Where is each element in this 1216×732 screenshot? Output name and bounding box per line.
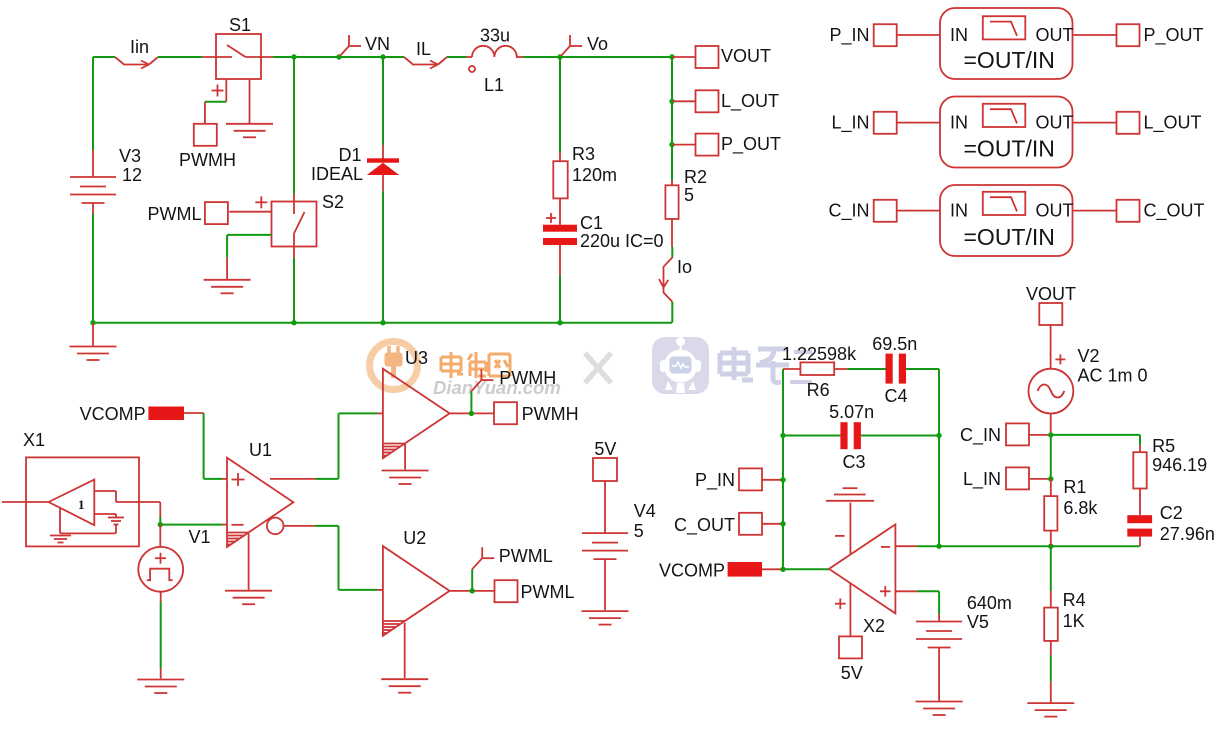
svg-text:PWML: PWML [499, 546, 553, 566]
resistor R3 [553, 161, 567, 198]
label C4 [885, 386, 908, 406]
label S2 [322, 192, 344, 212]
wire to P_OUT port [672, 144, 696, 146]
X2 negative supply pin [835, 503, 850, 554]
ground main rail [70, 347, 117, 361]
svg-text:P_OUT: P_OUT [1144, 25, 1204, 46]
resistor R6 wires [783, 368, 886, 370]
resistor R5 [1133, 452, 1146, 488]
svg-text:5V: 5V [841, 663, 863, 683]
svg-text:C2: C2 [1160, 503, 1183, 523]
value R1 6.8k [1063, 498, 1098, 518]
svg-text:VOUT: VOUT [721, 46, 771, 66]
transfer-function block L_OUT [940, 97, 1073, 168]
svg-text:5.07n: 5.07n [829, 402, 874, 422]
label 5V (X2) [841, 663, 863, 683]
wire VN junction down to D1 [382, 57, 384, 159]
resistor R4 [1044, 608, 1058, 641]
svg-text:VCOMP: VCOMP [80, 404, 146, 424]
wire to L_OUT port [669, 99, 695, 104]
port L_IN [874, 112, 897, 134]
wire rail to main ground [92, 323, 94, 346]
svg-text:R2: R2 [684, 167, 707, 187]
value L1 33u [480, 26, 510, 46]
node V1 junction [158, 522, 163, 527]
resistor R2 [665, 185, 678, 219]
wire V2 to C_IN row [1050, 414, 1052, 435]
svg-text:V3: V3 [119, 146, 141, 166]
X1 output wire [139, 502, 160, 525]
svg-text:X1: X1 [23, 430, 45, 450]
ground V1 [137, 680, 184, 694]
svg-text:PWMH: PWMH [522, 404, 579, 424]
X2 plus input wire [895, 591, 939, 614]
svg-text:U3: U3 [405, 348, 428, 368]
svg-text:PWML: PWML [521, 582, 575, 602]
label C_OUT (left) [674, 515, 735, 536]
wire C4 to right vertical [906, 368, 939, 370]
wire V4 to ground [604, 559, 606, 610]
U3 output wire [450, 411, 494, 416]
wire C_OUT to vertical [762, 521, 786, 526]
svg-text:U2: U2 [403, 528, 426, 548]
port PWML (right) [495, 580, 518, 602]
svg-text:C_IN: C_IN [960, 425, 1001, 446]
svg-text:P_IN: P_IN [829, 25, 869, 46]
svg-text:S1: S1 [229, 15, 251, 35]
comparator U1 [227, 458, 293, 547]
port C_IN (right) [1006, 423, 1029, 445]
transfer-function block C_OUT [940, 185, 1073, 256]
wire V1 junction to source [159, 525, 161, 548]
battery V4 [582, 533, 628, 559]
wire V1 to ground [160, 592, 162, 679]
wire L1 to Vo junction [523, 54, 563, 59]
U1 hatch [228, 533, 249, 545]
wire U1 bubble output to U2 [284, 526, 383, 590]
wire C1 to bottom rail [557, 245, 562, 325]
svg-text:V4: V4 [634, 501, 656, 521]
bode icon [983, 192, 1026, 215]
watermark dianyuan logo [370, 342, 418, 390]
wire Iin to S1 [158, 56, 202, 58]
svg-text:Vo: Vo [587, 34, 608, 54]
resistor R1 wires [1050, 479, 1052, 546]
label C2 [1160, 503, 1183, 523]
subcircuit X1 box [26, 457, 139, 546]
label U3 [405, 348, 428, 368]
svg-text:=OUT/IN: =OUT/IN [964, 224, 1055, 250]
wire Vo to VOUT corner [560, 54, 675, 59]
label VN [365, 34, 390, 54]
value R4 1K [1063, 611, 1085, 631]
svg-text:220u IC=0: 220u IC=0 [580, 231, 664, 251]
svg-text:VN: VN [365, 34, 390, 54]
svg-text:L_OUT: L_OUT [721, 91, 779, 112]
wire P_IN to vertical [762, 477, 786, 482]
label R4 [1063, 590, 1086, 610]
wire VOUT to V2 [1051, 325, 1066, 369]
svg-text:C1: C1 [580, 213, 603, 233]
feedback right vertical wire [938, 369, 940, 546]
wire IL to L1 [447, 56, 472, 58]
svg-text:5: 5 [634, 521, 644, 541]
block equation =OUT/IN [964, 47, 1055, 73]
wire C3 left [780, 433, 840, 438]
label R5 [1152, 436, 1175, 456]
node Vo flag [560, 35, 582, 57]
wire Vo down to R3 [559, 57, 561, 161]
watermark x mark [585, 353, 611, 383]
U1 plus input mark [232, 473, 245, 486]
port L_IN (right) [1006, 467, 1029, 489]
wire C_IN to junction [1030, 432, 1054, 437]
wire VN to D1 junction [339, 54, 386, 59]
label V3 [119, 146, 141, 166]
svg-text:L_IN: L_IN [963, 469, 1001, 490]
X1 feedback wires [94, 491, 139, 518]
svg-text:1K: 1K [1063, 611, 1085, 631]
X2 positive supply pin [835, 583, 850, 636]
port L_OUT [1117, 112, 1140, 134]
ground V5 [916, 702, 963, 716]
wire Io to bottom rail [671, 302, 673, 323]
S2 minus control wire [227, 235, 271, 280]
label S1 [229, 15, 251, 35]
svg-text:=OUT/IN: =OUT/IN [964, 47, 1055, 73]
wire C_IN to block [897, 210, 941, 212]
label PWML port [521, 582, 575, 602]
svg-text:V2: V2 [1078, 346, 1100, 366]
label PWMH port [522, 404, 579, 424]
label P_IN [829, 25, 869, 46]
diode D1 IDEAL [367, 158, 399, 191]
svg-text:L_OUT: L_OUT [1144, 113, 1202, 134]
svg-text:V5: V5 [967, 612, 989, 632]
wire VCOMP to U1 plus [184, 413, 227, 479]
svg-text:27.96n: 27.96n [1160, 524, 1215, 544]
current probe IL [404, 57, 447, 69]
svg-text:D1: D1 [338, 145, 361, 165]
label PWML flag [499, 546, 553, 566]
port VOUT (right) [1039, 303, 1062, 325]
label U2 [403, 528, 426, 548]
pin label OUT [1036, 113, 1074, 133]
label C_IN [828, 201, 869, 222]
label L_OUT [1144, 113, 1202, 134]
buffer U2 [383, 546, 450, 636]
pin label IN [950, 201, 968, 221]
port C_OUT [1117, 200, 1140, 222]
U1 minus input mark [232, 524, 244, 526]
capacitor C3 [840, 422, 861, 449]
bottom rail wire [90, 320, 672, 325]
label Iin [130, 37, 149, 57]
compensator output rail [939, 544, 1140, 549]
svg-text:C_OUT: C_OUT [674, 515, 735, 536]
label Io [677, 257, 692, 277]
svg-text:IN: IN [950, 25, 968, 45]
inverted ground X2 [826, 488, 874, 501]
value C1 220u IC=0 [580, 231, 664, 251]
label P_IN (left) [695, 470, 735, 491]
capacitor C4 [886, 354, 907, 384]
port P_IN [874, 24, 897, 46]
label V4 [634, 501, 656, 521]
wire V5 to ground [938, 648, 940, 701]
svg-text:R5: R5 [1152, 436, 1175, 456]
wire C3 right [861, 433, 942, 438]
value R3 120m [572, 165, 617, 185]
port 5V (X2) [839, 636, 862, 658]
svg-text:C_IN: C_IN [828, 201, 869, 222]
svg-text:Io: Io [677, 257, 692, 277]
svg-text:IN: IN [950, 201, 968, 221]
svg-text:640m: 640m [967, 593, 1012, 613]
label PWMH flag [499, 368, 556, 388]
node PWML flag [472, 547, 494, 591]
pulse source V1 [138, 547, 183, 592]
feedback left vertical wire [782, 369, 784, 569]
node VCOMP tag (right) [728, 562, 762, 577]
pin label IN [950, 25, 968, 45]
svg-text:1.22598k: 1.22598k [782, 344, 857, 364]
pin label IN [950, 113, 968, 133]
wire down to P_OUT [669, 101, 674, 147]
value V4 5 [634, 521, 644, 541]
wire S2 to bottom rail [291, 258, 296, 326]
block equation =OUT/IN [964, 224, 1055, 250]
svg-text:R1: R1 [1063, 477, 1086, 497]
svg-text:OUT: OUT [1036, 25, 1074, 45]
label L1 [484, 75, 504, 95]
port 5V (V4) [593, 458, 617, 481]
resistor R1 [1044, 496, 1057, 530]
current source Io [659, 257, 673, 302]
wire V1 to U1 minus input [160, 524, 227, 526]
port PWMH (top) [194, 124, 217, 146]
node VCOMP tag (left) [148, 407, 184, 421]
label VCOMP (right) [659, 561, 725, 581]
capacitor C2 [1127, 515, 1152, 536]
transfer-function block P_OUT [940, 8, 1073, 79]
svg-text:5: 5 [684, 185, 694, 205]
svg-text:R4: R4 [1063, 590, 1086, 610]
buffer U3 [383, 369, 450, 459]
battery V5 [916, 622, 962, 648]
wire top rail left segment [93, 56, 115, 58]
label V1 [189, 527, 211, 547]
label P_OUT [721, 134, 781, 155]
X1 input wire [2, 501, 49, 503]
value V3 12 [122, 165, 142, 185]
wire P_OUT junction to R2 [671, 145, 673, 186]
U2 ground pin [404, 623, 406, 678]
svg-text:1: 1 [78, 497, 85, 512]
label R3 [572, 144, 595, 164]
ground V4 [582, 611, 629, 625]
wire block to C_OUT [1073, 210, 1118, 212]
port C_OUT (left) [739, 513, 762, 535]
svg-text:5V: 5V [594, 439, 616, 459]
label Vo [587, 34, 608, 54]
svg-text:R3: R3 [572, 144, 595, 164]
wire R4 to ground [1050, 641, 1052, 703]
svg-text:C4: C4 [885, 386, 908, 406]
bode icon [983, 16, 1026, 39]
resistor R6 [800, 362, 834, 375]
bode icon [983, 104, 1026, 127]
svg-text:X2: X2 [863, 616, 885, 636]
label IL [416, 39, 431, 59]
svg-text:AC 1m 0: AC 1m 0 [1078, 366, 1148, 386]
voltage source V3 wire [92, 57, 94, 177]
port P_OUT [1117, 24, 1140, 46]
port PWMH (right) [494, 402, 517, 424]
watermark text dianyuan [441, 352, 510, 378]
wire to V5 [938, 614, 940, 622]
X2 minus input mark [881, 546, 890, 548]
label X2 [863, 616, 885, 636]
pin label OUT [1036, 25, 1074, 45]
svg-text:S2: S2 [322, 192, 344, 212]
svg-text:U1: U1 [249, 440, 272, 460]
U3 hatch [384, 444, 405, 456]
label P_OUT [1144, 25, 1204, 46]
label VOUT (right) [1026, 284, 1076, 304]
switch S1 [202, 34, 273, 79]
op-amp X2 [829, 524, 895, 613]
port VOUT (top) [696, 46, 719, 68]
block equation =OUT/IN [964, 136, 1055, 162]
svg-text:L_IN: L_IN [831, 113, 869, 134]
wire P_IN to block [897, 34, 941, 36]
svg-text:V1: V1 [189, 527, 211, 547]
label C1 [580, 213, 603, 233]
value R5 946.19 [1152, 455, 1207, 475]
label PWMH (top) [179, 150, 236, 170]
wire C_IN row to R5 [1051, 435, 1140, 445]
wire C2 to output rail [1139, 537, 1141, 547]
svg-text:6.8k: 6.8k [1063, 498, 1098, 518]
label C_IN (right) [960, 425, 1001, 446]
svg-text:120m: 120m [572, 165, 617, 185]
wire D1 junction to IL [383, 56, 404, 58]
watermark robot logo [652, 337, 709, 394]
svg-text:R6: R6 [807, 380, 830, 400]
U1 ground pin [248, 533, 250, 590]
label C3 [843, 452, 866, 472]
wire L_IN to block [897, 122, 941, 124]
svg-text:PWMH: PWMH [499, 368, 556, 388]
svg-text:Iin: Iin [130, 37, 149, 57]
label VCOMP (left) [80, 404, 146, 424]
svg-text:IL: IL [416, 39, 431, 59]
S1 ground pin [249, 79, 251, 124]
port C_IN [874, 200, 897, 222]
label C_OUT [1144, 201, 1205, 222]
X2 minus input wire [895, 544, 941, 549]
value C2 27.96n [1160, 524, 1215, 544]
svg-text:=OUT/IN: =OUT/IN [964, 136, 1055, 162]
svg-text:69.5n: 69.5n [872, 334, 917, 354]
svg-text:P_IN: P_IN [695, 470, 735, 491]
wire S1 control to PWMH [205, 102, 226, 124]
label L_OUT [721, 91, 779, 112]
port P_OUT [696, 134, 719, 156]
svg-text:C_OUT: C_OUT [1144, 201, 1205, 222]
ground S2 control [204, 280, 251, 294]
X1 internal reference bars [108, 518, 124, 534]
wire V3 to rail [92, 203, 94, 323]
node PWMH flag [471, 369, 493, 413]
label U1 [249, 440, 272, 460]
svg-text:OUT: OUT [1036, 201, 1074, 221]
wire R3 to C1 [559, 198, 561, 224]
label R2 [684, 167, 707, 187]
wire to VOUT port [672, 56, 696, 58]
X1 buffer triangle [49, 480, 95, 526]
value R2 5 [684, 185, 694, 205]
wire block to L_OUT [1073, 122, 1118, 124]
value V2 AC 1m 0 [1078, 366, 1148, 386]
capacitor C1 [543, 225, 577, 245]
port P_IN (left) [739, 468, 762, 490]
X1 internal ground wires [60, 508, 116, 533]
label R6 [807, 380, 830, 400]
ground U3 [382, 471, 429, 485]
port PWML (left) [205, 202, 228, 224]
value C4 69.5n [872, 334, 917, 354]
svg-text:PWML: PWML [148, 204, 202, 224]
svg-text:IDEAL: IDEAL [311, 164, 363, 184]
wire block to P_OUT [1073, 34, 1118, 36]
U1 output bubble [267, 518, 284, 535]
wire VCOMP to X2 [762, 567, 829, 572]
label V2 [1078, 346, 1100, 366]
wire rail to R4 [1050, 546, 1052, 607]
wire L_IN to junction [1030, 476, 1054, 481]
label X1 [23, 430, 45, 450]
ground U2 [381, 679, 428, 693]
value C3 5.07n [829, 402, 874, 422]
node VN flag [336, 35, 361, 60]
source V2 [1029, 369, 1074, 414]
current probe Iin [115, 57, 158, 69]
svg-text:VOUT: VOUT [1026, 284, 1076, 304]
wire R2 to Io [671, 219, 673, 257]
ground U1 [225, 591, 272, 605]
label L_IN [831, 113, 869, 134]
label D1 [338, 145, 361, 165]
label R1 [1063, 477, 1086, 497]
battery V3 [70, 177, 116, 203]
X2 plus input mark [880, 586, 891, 597]
svg-text:C3: C3 [843, 452, 866, 472]
ground S1 [226, 124, 273, 138]
watermark text dianzi xingqiu [720, 347, 812, 383]
X1 internal ground [50, 536, 71, 543]
svg-text:PWMH: PWMH [179, 150, 236, 170]
svg-text:VCOMP: VCOMP [659, 561, 725, 581]
S1 control pin + [212, 79, 227, 102]
wire C_IN junction down [1050, 435, 1052, 479]
inductor L1 [469, 46, 523, 72]
U3 ground pin [404, 444, 406, 470]
ground R4 [1027, 703, 1074, 717]
value R6 1.22598k [782, 344, 857, 364]
svg-text:IN: IN [950, 113, 968, 133]
